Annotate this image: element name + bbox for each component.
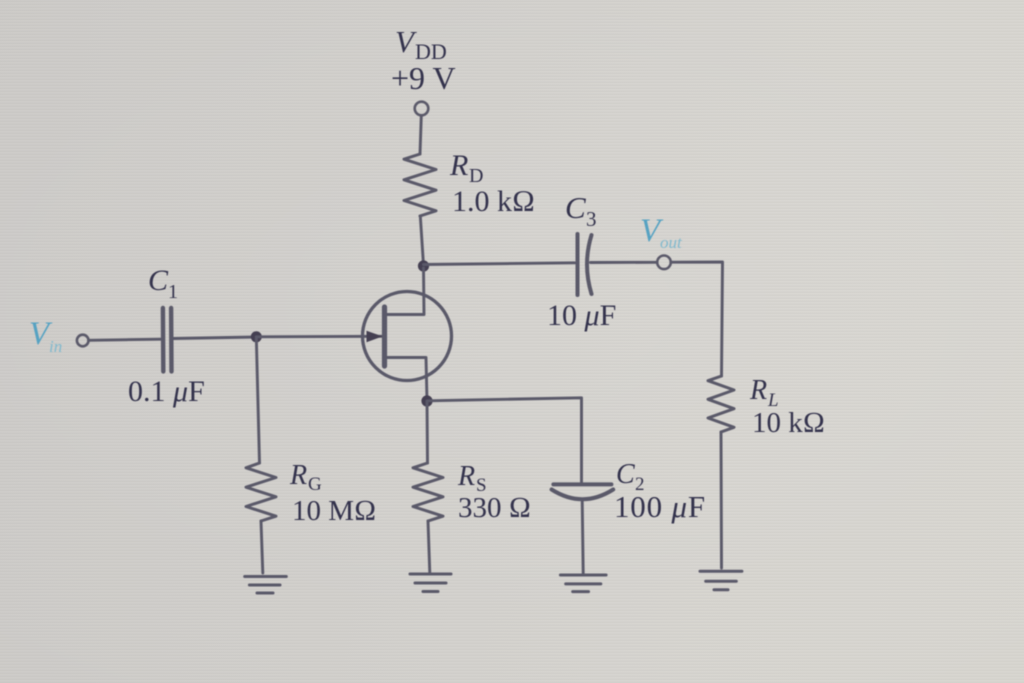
wire gate node down to RG xyxy=(256,337,259,463)
wire VDD to RD xyxy=(420,115,421,154)
capacitor C1 xyxy=(163,308,172,371)
label RS value xyxy=(457,461,531,524)
node drain junction xyxy=(418,260,429,271)
svg-text:V: V xyxy=(395,24,417,59)
svg-text:0.1 μF: 0.1 μF xyxy=(128,375,205,408)
JFET Q1 body xyxy=(363,292,452,381)
node gate junction xyxy=(251,331,262,342)
capacitor C3 xyxy=(578,234,592,295)
svg-text:R: R xyxy=(457,461,475,492)
wire C1 to gate node xyxy=(174,337,257,339)
svg-text:C: C xyxy=(565,190,586,225)
resistor RG xyxy=(246,463,276,521)
svg-text:C: C xyxy=(616,459,635,490)
label Vin xyxy=(29,316,62,356)
wire C3 to Vout terminal xyxy=(591,261,658,264)
ground (RG) xyxy=(245,577,287,594)
svg-text:C: C xyxy=(148,264,169,297)
svg-text:1.0 kΩ: 1.0 kΩ xyxy=(452,185,535,218)
wire gate node to JFET gate xyxy=(256,335,382,338)
label C3 value xyxy=(547,190,616,332)
label RL value xyxy=(749,375,825,439)
label C1 value xyxy=(128,264,205,408)
resistor RD xyxy=(404,154,436,216)
svg-text:R: R xyxy=(289,460,307,491)
wire Vout to RL xyxy=(671,262,723,376)
ground (C2) xyxy=(560,575,606,592)
JFET channel bar xyxy=(382,307,387,366)
svg-text:G: G xyxy=(308,474,322,495)
svg-text:330 Ω: 330 Ω xyxy=(458,492,531,524)
svg-text:out: out xyxy=(660,233,683,252)
resistor RS xyxy=(413,463,443,521)
svg-text:R: R xyxy=(449,149,468,182)
svg-text:10 kΩ: 10 kΩ xyxy=(752,407,825,439)
svg-text:R: R xyxy=(749,375,767,406)
wire C2 to ground xyxy=(582,500,583,573)
label C2 value xyxy=(614,459,706,524)
label Vout xyxy=(640,213,683,252)
label RG value xyxy=(289,460,376,527)
wire RS to ground xyxy=(428,521,430,573)
wire source node to RS xyxy=(426,401,429,463)
wire drain node to C3 xyxy=(424,263,575,265)
wire RG to ground xyxy=(261,521,263,573)
wire RL to ground xyxy=(720,432,723,568)
svg-text:100 μF: 100 μF xyxy=(614,489,706,524)
wire Vin to C1 xyxy=(89,339,161,340)
JFET source lead xyxy=(387,358,428,402)
svg-text:10 MΩ: 10 MΩ xyxy=(292,495,376,527)
terminal Vin xyxy=(77,335,89,347)
svg-text:10 μF: 10 μF xyxy=(547,299,616,332)
terminal Vout xyxy=(657,255,671,269)
wire RD to drain node xyxy=(420,216,423,265)
svg-text:3: 3 xyxy=(586,207,597,231)
ground (RL) xyxy=(700,571,742,589)
svg-text:in: in xyxy=(49,337,62,356)
ground (RS) xyxy=(410,574,451,592)
VDD terminal xyxy=(415,102,429,116)
node source junction xyxy=(421,395,432,406)
svg-text:+9 V: +9 V xyxy=(391,60,456,96)
capacitor C2 xyxy=(552,484,614,499)
label VDD xyxy=(391,24,456,96)
JFET gate arrow xyxy=(367,331,383,342)
svg-text:1: 1 xyxy=(168,281,178,303)
resistor RL xyxy=(708,376,734,432)
label RD value xyxy=(449,149,535,218)
JFET drain lead xyxy=(387,268,425,315)
svg-text:D: D xyxy=(469,165,483,187)
wire source node to C2 xyxy=(428,398,582,483)
